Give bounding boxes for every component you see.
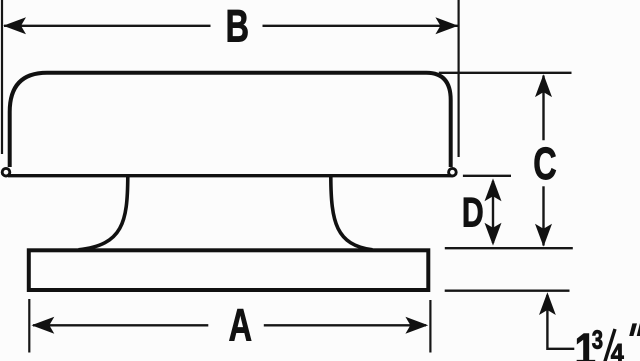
cap outline (rounded top body) — [10, 73, 451, 167]
svg-text:A: A — [229, 301, 252, 350]
dimension line B left segment — [4, 25, 211, 27]
arrowhead A left — [32, 317, 55, 334]
arrowhead D up — [485, 178, 502, 201]
extension line bottom of C and D — [445, 247, 573, 249]
svg-text:C: C — [533, 140, 556, 189]
dimension line C upper segment — [542, 76, 544, 141]
extension line top of C — [439, 72, 572, 74]
svg-text:4: 4 — [611, 340, 624, 361]
left rolled bead circle — [2, 168, 10, 176]
dimension line D — [492, 181, 494, 243]
extension line right of B — [458, 0, 460, 157]
arrowhead callout up — [539, 292, 556, 315]
extension line top of D — [463, 175, 511, 177]
callout leader stem for 1 3/4 — [547, 295, 574, 349]
svg-text:D: D — [462, 189, 484, 236]
extension line at base bottom for 1 3/4 callout — [445, 290, 570, 292]
extension line right of A — [429, 300, 431, 353]
stem left flared side — [79, 177, 128, 250]
dimension line B right segment — [263, 25, 458, 27]
inches double prime mark — [629, 323, 640, 336]
arrowhead D down — [485, 223, 502, 246]
arrowhead B left — [3, 17, 26, 34]
arrowhead C down — [535, 224, 552, 247]
base plate rectangle — [29, 250, 429, 290]
svg-text:B: B — [226, 2, 249, 51]
stem right flared side — [331, 177, 373, 250]
dimension line A right segment — [264, 324, 426, 326]
extension line left of A — [28, 299, 30, 353]
right rolled bead circle — [449, 168, 457, 176]
extension line left of B — [1, 0, 3, 154]
dimension line C lower segment — [542, 186, 544, 245]
svg-text:3: 3 — [592, 325, 603, 354]
arrowhead A right — [405, 317, 428, 334]
dimension line A left segment — [33, 324, 208, 326]
arrowhead C up — [535, 74, 552, 97]
arrowhead B right — [435, 17, 458, 34]
cap bottom rim line — [8, 174, 452, 177]
fraction slash — [604, 329, 616, 361]
